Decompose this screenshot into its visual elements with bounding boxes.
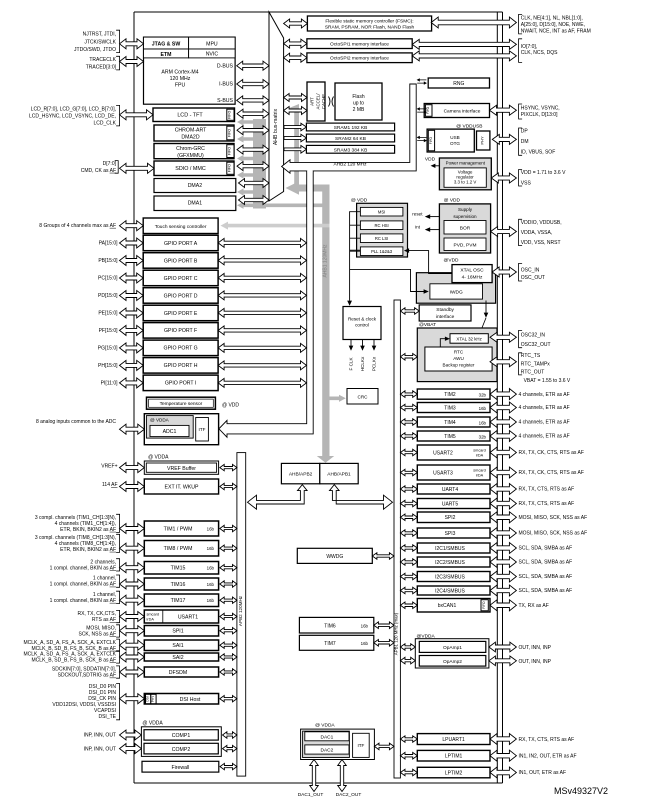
svg-text:MSv49327V2: MSv49327V2: [554, 786, 608, 796]
tap camera: [417, 109, 426, 112]
clock arrow into IWDG: [411, 288, 425, 292]
arrow I-BUS: [237, 80, 269, 89]
svg-text:USART2: USART2: [433, 450, 453, 456]
svg-text:GPIO PORT A: GPIO PORT A: [164, 241, 198, 247]
svg-text:ACCEL/: ACCEL/: [316, 93, 321, 110]
svg-text:PH[15:0]: PH[15:0]: [98, 363, 118, 369]
gray arrow DMA2: [237, 188, 266, 195]
svg-text:DSI_TE: DSI_TE: [98, 714, 116, 720]
arrow DFSDM to APB2: [220, 669, 237, 675]
block Standby interface: [419, 305, 471, 321]
block Touch sensing controller: [143, 218, 218, 234]
arrow GPIO B to AHB2 bus: [218, 256, 306, 265]
arrow matrix-OSPI2: [284, 53, 307, 62]
svg-text:CLK, NE[4:1], NL, NBL[1:0],: CLK, NE[4:1], NL, NBL[1:0],: [521, 15, 583, 21]
svg-text:AHB/APB2: AHB/APB2: [289, 471, 313, 477]
svg-text:INP, INN, OUT: INP, INN, OUT: [84, 746, 116, 752]
arrow VDD out: [434, 165, 439, 167]
block GPIO PORT H: [143, 358, 218, 374]
block GPIO PORT D: [143, 288, 218, 304]
arrow DMA1 to matrix: [239, 196, 270, 205]
svg-text:XTAL OSC: XTAL OSC: [460, 268, 484, 274]
arrow SPI2-APB1: [400, 514, 417, 521]
svg-text:RNG: RNG: [453, 81, 464, 87]
coupler ART-Flash: [329, 97, 334, 107]
gray arrow CRC: [330, 395, 346, 402]
block OctoSPI1: [307, 39, 412, 49]
svg-text:AHB2 120 MHz: AHB2 120 MHz: [333, 161, 367, 167]
svg-text:control: control: [355, 323, 369, 328]
arrow pin TIM16: [120, 579, 145, 589]
arrow LPTIM1 pins: [490, 750, 516, 761]
block USART2: [417, 445, 490, 460]
svg-text:IN1, IN2, OUT, ETR as AF: IN1, IN2, OUT, ETR as AF: [519, 753, 577, 759]
arrow RTC-APB1: [400, 354, 417, 361]
arrow pin TIM17: [120, 595, 145, 605]
block XTAL OSC: [452, 265, 492, 283]
svg-text:IWDG: IWDG: [450, 290, 463, 296]
arrow ADC elbow from AHB2 bus: [219, 171, 313, 438]
svg-text:Chrom-GRC: Chrom-GRC: [176, 146, 205, 152]
svg-text:LPUART1: LPUART1: [442, 737, 465, 743]
svg-text:up to: up to: [353, 101, 364, 107]
arrow GPIO G to AHB2 bus: [218, 343, 306, 352]
svg-text:LPTIM2: LPTIM2: [445, 770, 463, 776]
svg-text:OpAmp2: OpAmp2: [443, 659, 462, 665]
gray arrow Chrom-GRC: [237, 155, 266, 162]
svg-text:DMA2D: DMA2D: [181, 134, 199, 140]
arrow TIM1 to APB2: [220, 525, 237, 531]
gray arrow SDIO: [237, 171, 266, 178]
arrow GPIO C to AHB2 bus: [218, 273, 306, 282]
arrow pin GPIO F: [120, 325, 144, 335]
block IWDG area: [416, 273, 495, 304]
svg-text:GPIO PORT H: GPIO PORT H: [164, 363, 198, 369]
block SAI1: [144, 640, 218, 651]
svg-text:4 channels, ETR as AF: 4 channels, ETR as AF: [519, 392, 570, 398]
block TIM6: [299, 617, 373, 633]
svg-text:16b: 16b: [207, 582, 215, 587]
CPU block ARM Cortex-M4: [144, 37, 236, 104]
svg-text:irDA: irDA: [476, 453, 484, 457]
clock arrow LSE down: [485, 301, 487, 314]
svg-text:F CLK: F CLK: [349, 357, 354, 371]
svg-text:supervision: supervision: [453, 214, 477, 219]
arrow pin GPIO D: [120, 291, 144, 301]
arrow OSC pins: [492, 267, 516, 277]
arrow RTC pins: [490, 357, 516, 367]
svg-text:SCL, SDA, SMBA as AF: SCL, SDA, SMBA as AF: [519, 588, 573, 594]
arrow OSPI1 pins: [412, 39, 516, 49]
block COMP2: [144, 743, 218, 754]
clock line XTAL-PLL: [409, 251, 452, 274]
block SPI2: [417, 512, 490, 523]
arrow I2C3/SMBUS-APB1: [400, 573, 417, 580]
arrow USART3 pins: [490, 467, 516, 478]
svg-text:FIFO: FIFO: [426, 106, 430, 114]
svg-text:@ VDD: @ VDD: [351, 198, 368, 204]
arrow TIM2 pins: [490, 389, 516, 400]
svg-text:APB1 120 MHz (max): APB1 120 MHz (max): [393, 612, 398, 655]
APB1 bus: [394, 300, 400, 778]
block DFSDM: [144, 667, 218, 677]
arrow pin GPIO G: [120, 343, 144, 353]
arrow pin COMP1: [120, 730, 142, 740]
arrow SPI1 to APB2: [220, 628, 237, 634]
svg-text:RX, TX, CTS, RTS as AF: RX, TX, CTS, RTS as AF: [519, 501, 575, 507]
svg-text:DMA2: DMA2: [188, 183, 203, 189]
arrow GPIO H to AHB2 bus: [218, 361, 306, 370]
svg-text:irDA: irDA: [147, 618, 155, 622]
arrow USART2 pins: [490, 447, 516, 458]
arrow matrix-SRAM2: [284, 134, 306, 142]
svg-text:I-BUS: I-BUS: [219, 82, 233, 88]
arrow TIM8 to APB2: [220, 545, 237, 551]
svg-text:GPIO PORT C: GPIO PORT C: [164, 276, 198, 282]
svg-text:ADC1: ADC1: [163, 429, 177, 435]
arrow pin EXTI: [120, 482, 145, 492]
svg-text:MOSI, MISO, SCK, NSS as AF: MOSI, MISO, SCK, NSS as AF: [519, 515, 588, 521]
svg-text:@ VDD: @ VDD: [444, 198, 461, 204]
svg-text:TIM16: TIM16: [171, 582, 186, 588]
svg-text:Power management: Power management: [446, 161, 486, 166]
arrow WWDG-APB1: [372, 553, 394, 560]
svg-text:Standby: Standby: [436, 307, 454, 313]
arrow SPI2 pins: [490, 512, 516, 523]
arrow DAC-APB1: [374, 743, 394, 750]
svg-text:ETM: ETM: [161, 52, 172, 58]
arrow RTC-XTAL32: [440, 339, 445, 347]
arrow UART4 pins: [490, 484, 516, 495]
block ART ACCEL CACHE: [307, 82, 325, 121]
arrow LPTIM2-APB1: [400, 769, 417, 776]
svg-text:GPIO PORT B: GPIO PORT B: [164, 258, 198, 264]
svg-text:LCD - TFT: LCD - TFT: [177, 113, 203, 119]
svg-text:VSS: VSS: [521, 180, 532, 186]
arrow TIM4 pins: [490, 417, 516, 428]
svg-text:RC LSI: RC LSI: [375, 236, 389, 241]
svg-text:Firewall: Firewall: [171, 765, 189, 771]
block TIM5: [417, 431, 490, 441]
clock out PCLKx: [373, 340, 375, 347]
block DAC1: [305, 732, 349, 741]
block LPTIM1: [417, 750, 490, 761]
arrow OpAmp2 pins: [489, 656, 517, 666]
svg-text:ETR, BKIN, BKIN2 as AF: ETR, BKIN, BKIN2 as AF: [60, 547, 116, 553]
svg-text:@ VDDA: @ VDDA: [148, 455, 169, 461]
block Chrom-GRC GFXMMU: [154, 144, 234, 159]
clock out F CLK: [350, 340, 352, 347]
svg-text:16b: 16b: [207, 526, 215, 531]
elbow APB2: [248, 485, 308, 510]
arrow pin JTAG: [120, 39, 144, 49]
svg-text:PIXCLK, D[13:0]: PIXCLK, D[13:0]: [521, 112, 558, 118]
svg-text:DMA1: DMA1: [188, 201, 203, 207]
svg-text:HCLKx: HCLKx: [360, 356, 365, 371]
svg-text:RC HSI: RC HSI: [374, 223, 388, 228]
arrow LPTIM1-APB1: [400, 752, 417, 759]
svg-text:RTS as AF: RTS as AF: [92, 617, 116, 623]
svg-text:interface: interface: [436, 314, 455, 320]
svg-text:@ VDD: @ VDD: [222, 403, 239, 409]
svg-text:PLL 1&2&3: PLL 1&2&3: [371, 249, 393, 254]
svg-text:@VBAT: @VBAT: [419, 322, 436, 328]
svg-text:ARM Cortex-M4: ARM Cortex-M4: [161, 70, 198, 76]
block DAC2: [305, 745, 349, 754]
arrow TIM4-APB1: [400, 419, 417, 426]
svg-text:ITF: ITF: [357, 743, 364, 748]
block Temperature sensor: [147, 397, 216, 409]
svg-text:@ VDDA: @ VDDA: [315, 723, 335, 729]
arrow I2C1/SMBUS-APB1: [400, 545, 417, 552]
gray bus riser A: [253, 119, 266, 209]
arrow DMA2 to matrix: [239, 179, 270, 188]
arrow pin TIM15: [120, 563, 145, 573]
svg-text:IN1, OUT, ETR as AF: IN1, OUT, ETR as AF: [519, 770, 567, 776]
light gray touch sensing bus: [221, 222, 330, 230]
svg-text:TIM8 / PWM: TIM8 / PWM: [164, 546, 193, 552]
svg-text:TIM6: TIM6: [324, 624, 336, 630]
arrow pin GPIO H: [120, 360, 144, 370]
svg-text:2 MB: 2 MB: [353, 107, 365, 113]
svg-text:SRAM2 64 KB: SRAM2 64 KB: [335, 136, 366, 142]
svg-text:Flash: Flash: [352, 94, 364, 100]
svg-text:SRAM, PSRAM, NOR Flash, NAND F: SRAM, PSRAM, NOR Flash, NAND Flash: [325, 24, 415, 30]
block SRAM2: [306, 134, 394, 142]
svg-text:UART5: UART5: [442, 501, 459, 507]
svg-text:1 compl. channel, BKIN as AF: 1 compl. channel, BKIN as AF: [50, 582, 116, 588]
svg-text:OSC_OUT: OSC_OUT: [521, 275, 545, 281]
svg-text:I2C4/SMBUS: I2C4/SMBUS: [435, 588, 465, 594]
svg-text:SAI1: SAI1: [172, 643, 183, 649]
arrow pin ADC: [120, 424, 145, 434]
arrow pin SDIO: [120, 163, 155, 173]
arrow pin COMP2: [120, 744, 142, 754]
block OpAmp wrapper: [415, 639, 489, 668]
svg-text:Flexible static memory control: Flexible static memory controller (FSMC)…: [325, 18, 413, 24]
svg-text:MCLK_B, SD_B, FS_B, SCK_B as A: MCLK_B, SD_B, FS_B, SCK_B as AF: [32, 658, 116, 664]
svg-text:I2C1/SMBUS: I2C1/SMBUS: [435, 546, 465, 552]
svg-text:16b: 16b: [207, 598, 215, 603]
block MSI cluster: [357, 203, 408, 257]
block TIM7: [299, 635, 373, 650]
svg-text:LCD_HSYNC, LCD_VSYNC, LCD_DE,: LCD_HSYNC, LCD_VSYNC, LCD_DE,: [29, 114, 116, 120]
svg-text:PVD, PVM: PVD, PVM: [454, 242, 477, 248]
block I2C2/SMBUS: [417, 557, 490, 567]
svg-text:MPU: MPU: [206, 41, 218, 47]
svg-text:FIFO: FIFO: [429, 136, 433, 144]
block Flash: [335, 83, 382, 120]
svg-text:JTDO/SWD, JTDO: JTDO/SWD, JTDO: [74, 47, 116, 53]
svg-text:SCL, SDA, SMBA as AF: SCL, SDA, SMBA as AF: [519, 574, 573, 580]
svg-text:WWDG: WWDG: [326, 554, 343, 560]
block USART3: [417, 465, 490, 480]
svg-text:TIM15: TIM15: [171, 566, 186, 572]
arrow pin SPI1: [120, 626, 145, 636]
svg-text:TRACED[3:0]: TRACED[3:0]: [86, 64, 117, 70]
block OctoSPI2: [307, 53, 412, 63]
svg-text:FIFO: FIFO: [228, 147, 232, 155]
arrow USART3-APB1: [400, 469, 417, 476]
svg-text:COMP2: COMP2: [172, 747, 191, 753]
svg-text:CHROM-ART: CHROM-ART: [175, 128, 207, 134]
arrow OpAmp1 pins: [489, 642, 517, 652]
block UART4: [417, 484, 490, 494]
block RTC: [425, 347, 492, 371]
svg-text:PI[11:0]: PI[11:0]: [101, 381, 118, 387]
arrow TIM15 to APB2: [220, 565, 237, 571]
block USB OTG: [427, 129, 474, 152]
svg-text:USART3: USART3: [433, 470, 453, 476]
block DMA1: [154, 196, 236, 211]
arrow VDD pins: [491, 173, 516, 183]
svg-text:JTCK/SWCLK: JTCK/SWCLK: [84, 39, 116, 45]
svg-text:DFSDM: DFSDM: [169, 670, 187, 676]
svg-text:FIFO: FIFO: [482, 601, 486, 609]
arrow TIM5-APB1: [400, 433, 417, 440]
svg-text:SCK, NSS as AF: SCK, NSS as AF: [78, 632, 116, 638]
svg-text:BOR: BOR: [460, 225, 471, 231]
arrow I2C3/SMBUS pins: [490, 571, 516, 582]
svg-text:PB[15:0]: PB[15:0]: [98, 258, 118, 264]
svg-text:OSC32_IN: OSC32_IN: [521, 333, 546, 339]
block Firewall: [142, 761, 219, 772]
svg-text:SPI3: SPI3: [445, 531, 456, 537]
clock line MSI: [350, 212, 411, 301]
block GPIO PORT I: [143, 375, 218, 391]
svg-text:HSYNC, VSYNC,: HSYNC, VSYNC,: [521, 106, 560, 112]
chip outer border: [134, 12, 503, 783]
svg-text:SPI1: SPI1: [172, 629, 183, 635]
block TIM4: [417, 417, 490, 427]
gray arrowhead riser C: [289, 104, 300, 113]
svg-text:smcard: smcard: [147, 612, 159, 616]
gray arrow LCD fifo: [237, 118, 266, 125]
svg-text:PHY: PHY: [151, 695, 155, 702]
arrow supply pins: [491, 227, 517, 237]
block SPI1: [144, 626, 218, 637]
svg-text:CLK, NCS, DQS: CLK, NCS, DQS: [521, 50, 558, 56]
arrow UART5 pins: [490, 498, 516, 509]
arrow pin Touch: [120, 221, 144, 231]
gray arrow CHROM-ART: [237, 135, 266, 142]
svg-text:DSI: DSI: [146, 696, 150, 701]
svg-text:SAI2: SAI2: [172, 655, 183, 661]
svg-text:OUT, INN, INP: OUT, INN, INP: [519, 645, 552, 651]
svg-text:OSC_IN: OSC_IN: [521, 267, 540, 273]
arrow COMP1 to APB2: [223, 732, 237, 738]
block IWDG: [430, 284, 483, 299]
svg-text:ETR, BKIN, BKIN2 as AF: ETR, BKIN, BKIN2 as AF: [60, 527, 116, 533]
arrow SDIO to matrix: [237, 162, 269, 171]
svg-text:AHB bus-matrix: AHB bus-matrix: [273, 108, 279, 145]
arrow LPUART1-APB1: [400, 736, 417, 743]
svg-text:RTC_OUT: RTC_OUT: [521, 370, 545, 376]
svg-text:1 compl. channel, BKIN as AF: 1 compl. channel, BKIN as AF: [50, 598, 116, 604]
arrow USART2-APB1: [400, 449, 417, 456]
block EXT IT WKUP: [144, 479, 218, 494]
svg-text:RX, TX, CTS, RTS as AF: RX, TX, CTS, RTS as AF: [519, 487, 575, 493]
svg-text:FIFO: FIFO: [228, 129, 232, 137]
svg-text:SCL, SDA, SMBA as AF: SCL, SDA, SMBA as AF: [519, 546, 573, 552]
block SRAM1: [306, 123, 394, 131]
svg-text:DAC1: DAC1: [321, 734, 334, 740]
svg-text:DM: DM: [521, 139, 529, 145]
block WWDG: [297, 548, 372, 563]
svg-text:reset: reset: [412, 211, 423, 216]
arrow VREF to APB2: [220, 464, 237, 470]
arrow TIM3 pins: [490, 402, 516, 413]
svg-text:VBAT = 1.55 to 3.6 V: VBAT = 1.55 to 3.6 V: [524, 378, 571, 384]
svg-text:TRACECLK: TRACECLK: [89, 57, 116, 63]
svg-text:bxCAN1: bxCAN1: [438, 603, 457, 609]
block I2C1/SMBUS: [417, 543, 490, 553]
svg-text:16b: 16b: [207, 546, 215, 551]
arrow matrix-SRAM1: [284, 123, 306, 131]
svg-text:A[25:0], D[15:0], NOE, NWE,: A[25:0], D[15:0], NOE, NWE,: [521, 22, 585, 28]
svg-text:IO[7:0],: IO[7:0],: [521, 44, 537, 50]
block Power management: [439, 158, 491, 190]
block FSMC: [307, 16, 431, 31]
block SDIO MMC: [154, 161, 234, 176]
arrow matrix-OSPI1: [284, 39, 307, 48]
svg-text:RTC_TS: RTC_TS: [521, 353, 541, 359]
APB2 bus: [237, 453, 246, 776]
svg-text:GPIO PORT E: GPIO PORT E: [164, 311, 198, 317]
svg-text:JTAG & SW: JTAG & SW: [152, 42, 181, 48]
block USART1: [144, 610, 218, 623]
svg-text:int: int: [415, 224, 421, 229]
arrow pin GPIO B: [120, 256, 144, 266]
svg-text:EXT IT. WKUP: EXT IT. WKUP: [165, 485, 199, 491]
block TIM16: [144, 578, 218, 590]
block Camera interface: [424, 104, 489, 118]
svg-text:RX, TX, CK, CTS, RTS as AF: RX, TX, CK, CTS, RTS as AF: [519, 470, 584, 476]
svg-text:OctoSPI2 memory interface: OctoSPI2 memory interface: [330, 56, 389, 62]
arrow GPIO I to AHB2 bus: [218, 378, 306, 387]
arrow pin GPIO I: [120, 378, 144, 388]
block AHB-APB2: [281, 463, 319, 483]
tap RNG: [417, 80, 426, 83]
arrow pin TIM8: [120, 543, 145, 553]
svg-text:AHB/APB1: AHB/APB1: [327, 471, 351, 477]
AHB2 bus arrow: [282, 84, 417, 173]
svg-text:4 channels, ETR as AF: 4 channels, ETR as AF: [519, 434, 570, 440]
svg-text:UART4: UART4: [442, 487, 459, 493]
svg-text:3.3 to 1.2 V: 3.3 to 1.2 V: [454, 180, 477, 185]
arrow pin SAI2: [120, 652, 145, 662]
arrow Firewall to APB2: [220, 763, 237, 769]
arrow GPIO D to AHB2 bus: [218, 291, 306, 300]
arrow matrix-SRAM3: [284, 146, 306, 154]
arrow DAC2_OUT: [338, 760, 347, 792]
svg-text:@VDD: @VDD: [444, 258, 460, 264]
svg-text:OTG: OTG: [450, 141, 460, 146]
block GPIO PORT F: [143, 323, 218, 339]
svg-text:ART: ART: [310, 97, 315, 106]
svg-text:SCL, SDA, SMBA as AF: SCL, SDA, SMBA as AF: [519, 560, 573, 566]
arrow EXTI to APB2: [220, 483, 237, 489]
svg-text:32b: 32b: [479, 434, 487, 439]
svg-text:VREF+: VREF+: [101, 464, 117, 470]
svg-text:USART1: USART1: [178, 614, 198, 620]
arrow matrix-ART 2: [284, 107, 307, 115]
svg-text:LPTIM1: LPTIM1: [445, 754, 463, 760]
arrow int: [429, 229, 439, 231]
svg-text:Reset & clock: Reset & clock: [348, 317, 377, 322]
svg-text:AHB1 120MHz: AHB1 120MHz: [322, 244, 328, 278]
svg-text:FIFO: FIFO: [228, 111, 232, 119]
